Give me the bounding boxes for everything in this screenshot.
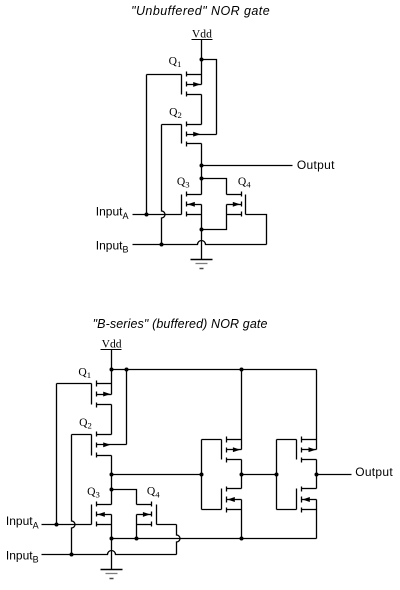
svg-text:InputA: InputA bbox=[96, 205, 129, 221]
wire: inverter-2 PMOS drain to output node bbox=[316, 460, 318, 475]
svg-text:Output: Output bbox=[355, 465, 393, 479]
wire: Vdd node down to Q1 source/bulk (top) bbox=[201, 60, 203, 85]
node: final output junction dot bbox=[315, 473, 319, 477]
wire: Q1 gate lead (bottom) bbox=[57, 383, 92, 385]
svg-text:"Unbuffered" NOR gate: "Unbuffered" NOR gate bbox=[131, 4, 270, 18]
wire: inverter-1 NMOS gate lead bbox=[202, 509, 222, 511]
node: ground junction dot (top) bbox=[200, 228, 204, 232]
node: NOR output junction dot (bottom) bbox=[110, 473, 114, 477]
wire: output node down to NMOS drain node (top) bbox=[201, 166, 203, 179]
node: Vdd junction dot (bottom) bbox=[110, 368, 114, 372]
node: Q2 gate to InputB junction dot (top) bbox=[160, 243, 164, 247]
svg-text:Q1: Q1 bbox=[169, 55, 182, 70]
wire: Q3 source/bulk down to ground rail (bottom) bbox=[111, 515, 113, 539]
transistor: inverter-2 NMOS (bottom) bbox=[297, 487, 317, 513]
node: inverter-1 input junction dot (bottom) bbox=[200, 473, 204, 477]
transistor Q3 (bottom, N-channel MOSFET) bbox=[92, 502, 112, 527]
wire: Q1 gate riser (top) bbox=[146, 75, 148, 215]
transistor Q3 (top, N-channel MOSFET) bbox=[182, 192, 202, 217]
wire: InputA line to Q3 gate (bottom) bbox=[42, 524, 92, 526]
wire: inverter-1 input riser (bottom) bbox=[201, 440, 203, 510]
transistor: inverter-2 PMOS (bottom) bbox=[297, 437, 317, 463]
node: Vdd junction dot (top) bbox=[200, 58, 204, 62]
node: ground rail dot at Q3 (bottom) bbox=[110, 537, 114, 541]
wire: Q3 source/bulk down to ground node (top) bbox=[201, 205, 203, 230]
wire: bypass Vdd to Q2 bulk (bottom) bbox=[126, 370, 128, 445]
node: inverter-2 input junction dot bbox=[275, 473, 279, 477]
transistor Q4 (top, N-channel MOSFET, mirrored) bbox=[227, 192, 246, 217]
svg-text:InputB: InputB bbox=[6, 548, 39, 564]
wire: inverter-1 output node down to NMOS drain bbox=[241, 475, 243, 489]
wire: Q2 gate lead (bottom) bbox=[72, 434, 92, 436]
wire: final output node down to NMOS drain bbox=[316, 475, 318, 489]
wire: InputB line with hop over ground stem (top) bbox=[133, 241, 267, 245]
wire: Vdd node down to Q1 source/bulk (bottom) bbox=[111, 370, 113, 395]
wire: Q4 source/bulk to ground node (top) bbox=[202, 205, 227, 230]
wire: Q2 gate lead (top) bbox=[162, 124, 182, 126]
wire: drain node branch to Q4 drain (top) bbox=[202, 179, 227, 195]
transistor Q4 (bottom, N-channel MOSFET, mirrored) bbox=[137, 502, 157, 527]
node: InputA to Q1 gate junction dot (top) bbox=[145, 213, 149, 217]
node: InputA to Q1 gate junction dot (bottom) bbox=[55, 523, 59, 527]
svg-text:Q2: Q2 bbox=[169, 105, 182, 120]
svg-text:Q3: Q3 bbox=[177, 175, 190, 190]
svg-text:Vdd: Vdd bbox=[102, 338, 122, 351]
wire: Vdd to Q2 bulk bypass (top) bbox=[202, 60, 217, 135]
wire: InputB line with hop over ground stem (bottom) bbox=[42, 551, 177, 555]
wire: Q1 drain to Q2 source (bottom) bbox=[111, 405, 113, 435]
wire: inverter-2 PMOS gate lead bbox=[277, 439, 297, 441]
wire: Q2 drain down to NOR output node (bottom) bbox=[111, 456, 113, 475]
transistor Q1 (bottom, P-channel MOSFET) bbox=[92, 381, 112, 408]
svg-text:InputB: InputB bbox=[96, 239, 129, 255]
wire: drain node down to Q3 drain (bottom) bbox=[111, 490, 113, 505]
transistor: inverter-1 PMOS (bottom) bbox=[222, 437, 242, 463]
svg-text:Output: Output bbox=[297, 158, 335, 172]
node: Vdd rail dot at inverter-1 PMOS (bottom) bbox=[240, 368, 244, 372]
wire: Q1 gate lead (top) bbox=[147, 74, 182, 76]
wire: Q2 drain down to output node (top) bbox=[201, 144, 203, 166]
transistor Q2 (bottom, P-channel MOSFET) bbox=[92, 432, 127, 458]
ground symbol (top) bbox=[191, 230, 213, 269]
wire: Q4 gate lead to InputB rail (top) bbox=[246, 215, 267, 245]
power Vdd (bottom circuit) bbox=[101, 338, 122, 351]
node: NMOS drain junction dot (top) bbox=[200, 177, 204, 181]
node: ground rail dot at Q4 (bottom) bbox=[135, 537, 139, 541]
wire: Q2 gate riser with hop over InputA (top) bbox=[162, 125, 166, 245]
svg-text:Q3: Q3 bbox=[87, 485, 100, 500]
wire: Q4 source/bulk down to ground rail (bottom) bbox=[136, 515, 138, 539]
node: output junction dot (top) bbox=[200, 164, 204, 168]
wire: Q1 gate riser (bottom) bbox=[56, 384, 58, 525]
transistor Q2 (top, P-channel MOSFET) bbox=[182, 122, 217, 147]
wire: inverter-1 output to inverter-2 input bbox=[242, 474, 277, 476]
wire: Q1 drain to Q2 source (top) bbox=[201, 95, 203, 125]
node: inverter-1 output junction dot bbox=[240, 473, 244, 477]
node: Q2 gate to InputB junction dot (bottom) bbox=[70, 553, 74, 557]
wire: Vdd rail (bottom) bbox=[112, 369, 317, 371]
wire: inverter-2 NMOS source/bulk down to ground rail bbox=[316, 500, 318, 539]
wire: Q4 gate lead with hop over ground rail (bottom) bbox=[157, 524, 177, 526]
wire: final output line (bottom) bbox=[317, 474, 352, 476]
wire: inverter-2 NMOS gate lead bbox=[277, 509, 297, 511]
wire: drain node branch to Q4 drain (bottom) bbox=[112, 490, 137, 505]
wire: ground rail (bottom) bbox=[112, 538, 317, 540]
wire: inverter-1 NMOS source/bulk down to ground rail bbox=[241, 500, 243, 539]
wire: Q2 gate riser with hop over InputA (bottom) bbox=[72, 435, 76, 555]
wire: inverter-1 PMOS drain to output node bbox=[241, 460, 243, 475]
ground symbol (bottom) bbox=[101, 539, 123, 579]
wire: inverter-1 PMOS gate lead bbox=[202, 439, 222, 441]
wire: Vdd stem (bottom) bbox=[111, 350, 113, 370]
wire: InputA line to Q3 gate (top) bbox=[133, 214, 182, 216]
svg-text:InputA: InputA bbox=[6, 514, 39, 530]
power Vdd (top circuit) bbox=[192, 28, 213, 41]
wire: NOR output to inverter-1 input (bottom) bbox=[112, 474, 202, 476]
wire: Vdd rail down to inverter-1 PMOS source/bulk bbox=[241, 370, 243, 450]
wire: Vdd rail down to inverter-2 PMOS source/bulk bbox=[316, 370, 318, 450]
wire: output line (top) bbox=[202, 165, 293, 167]
node: ground rail dot at inverter-1 NMOS (bottom) bbox=[240, 537, 244, 541]
svg-text:"B-series" (buffered) NOR gate: "B-series" (buffered) NOR gate bbox=[93, 317, 268, 331]
svg-text:Vdd: Vdd bbox=[192, 28, 212, 41]
node: NMOS drain junction dot (bottom) bbox=[110, 488, 114, 492]
svg-text:Q2: Q2 bbox=[79, 416, 92, 431]
svg-text:Q4: Q4 bbox=[238, 175, 251, 190]
node: Vdd rail dot at Q2 bulk bypass (bottom) bbox=[125, 368, 129, 372]
wire: NOR output down to NMOS drain node (bottom) bbox=[111, 475, 113, 490]
wire: Vdd stem (top) bbox=[201, 40, 203, 60]
svg-text:Q4: Q4 bbox=[147, 485, 160, 500]
transistor Q1 (top, P-channel MOSFET) bbox=[182, 72, 202, 97]
transistor: inverter-1 NMOS (bottom) bbox=[222, 487, 242, 513]
wire: inverter-2 input riser (bottom) bbox=[276, 440, 278, 510]
wire: drain node down to Q3 drain (top) bbox=[201, 179, 203, 195]
svg-text:Q1: Q1 bbox=[78, 365, 91, 380]
